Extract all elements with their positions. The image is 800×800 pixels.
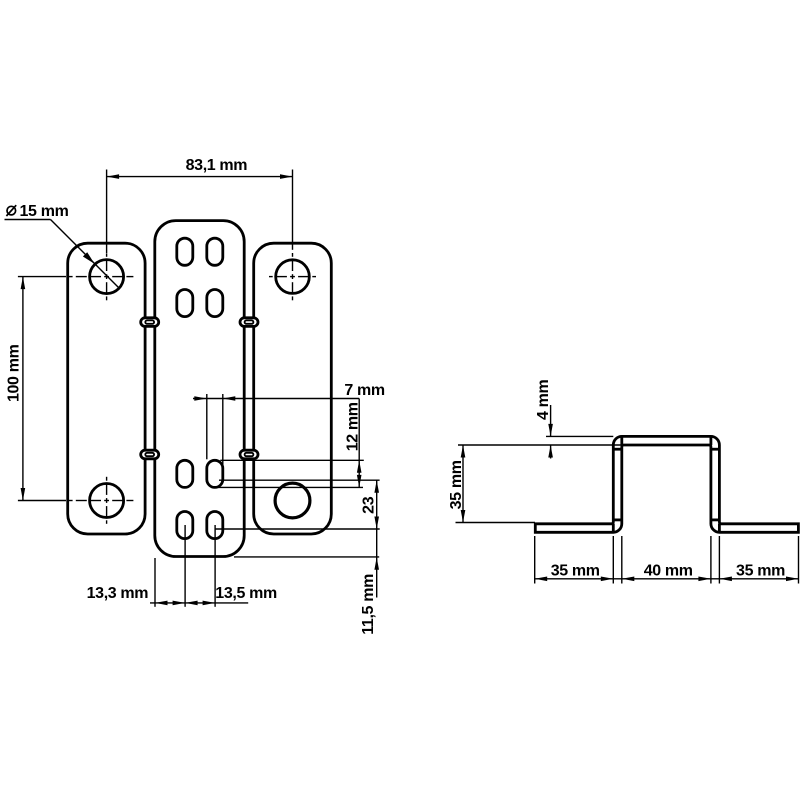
ext line 7 right (222, 394, 224, 479)
bend mark bottom-left tick (613, 519, 622, 522)
tab bridge outer (141, 318, 159, 327)
hat channel profile outline (535, 436, 798, 532)
centerline hole TR horizontal (290, 276, 295, 278)
arrow 23 bottom (374, 517, 379, 530)
ext line roof top (546, 435, 613, 437)
left plate outline (68, 243, 145, 534)
slot r1c2 (207, 238, 223, 265)
dim line 35 height (462, 445, 464, 523)
ext line wall left inner (621, 536, 623, 584)
slot r2c1 (177, 290, 193, 317)
dim line 100 (22, 277, 24, 501)
arrow 100 top (21, 277, 26, 290)
dim line 4 lower (550, 445, 552, 459)
svg-text:35 mm: 35 mm (736, 562, 785, 579)
ext line 13,3/13,5 middle (184, 525, 186, 607)
ext line flange top (456, 522, 536, 524)
leader arrow (83, 252, 95, 264)
arrow 23 top (374, 480, 379, 493)
dim line bottom widths (535, 578, 799, 580)
svg-text:4 mm: 4 mm (535, 379, 552, 420)
svg-text:11,5 mm: 11,5 mm (360, 574, 377, 635)
ext line slot bottom (215, 486, 363, 488)
ext line wall right inner (710, 536, 712, 584)
arrow 13,3 right (173, 601, 186, 606)
tab bridge outer (141, 450, 159, 459)
arrow 13,3 left (155, 601, 168, 606)
arrow 35R right (786, 577, 799, 582)
tab bridge inner (245, 320, 254, 323)
svg-text:23: 23 (361, 496, 378, 514)
bend mark bottom-left vertical (612, 524, 615, 533)
ext line wall right outer (718, 536, 720, 584)
centerline hole BL vertical (106, 498, 108, 503)
arrow 100 bottom (21, 488, 26, 501)
slot r1c1 (177, 238, 193, 265)
centerline hole TL vertical (106, 274, 108, 279)
arrow 4 up (548, 445, 553, 458)
arrow 4 down (548, 424, 553, 437)
svg-text:35 mm: 35 mm (551, 562, 600, 579)
tab bridge outer (240, 450, 258, 459)
bend mark top-right vertical (710, 436, 713, 445)
dim line 13,3/13,5 (150, 602, 248, 604)
centerline hole BL horizontal (104, 500, 109, 502)
ext line wall left outer (612, 536, 614, 584)
leader underline (5, 219, 51, 221)
ext line 13,5 right (214, 525, 216, 607)
tab bridge outer (240, 318, 258, 327)
ext line slot top (220, 459, 363, 461)
slot r3c2 (207, 460, 223, 487)
arrow 83,1 left (107, 174, 120, 179)
arrow 35h top (461, 445, 466, 458)
svg-text:100 mm: 100 mm (5, 344, 22, 402)
hole bottom-left (90, 484, 124, 518)
arrow 7 left (194, 396, 207, 401)
bend mark top-left tick (613, 448, 622, 451)
dim line 23 (376, 480, 378, 529)
ext line 23 top (219, 479, 380, 481)
hole top-left Ø15 (90, 260, 124, 294)
dim line 7 (193, 398, 359, 400)
dim line 11,5 (376, 529, 378, 598)
svg-text:7 mm: 7 mm (344, 382, 385, 399)
bend mark bottom-right tick (711, 519, 720, 522)
ext line 7 left (206, 394, 208, 459)
svg-text:40 mm: 40 mm (644, 562, 693, 579)
slot r4c2 (207, 512, 223, 539)
dim line 4 upper (550, 405, 552, 436)
svg-text:83,1 mm: 83,1 mm (186, 157, 248, 174)
right plate outline (254, 243, 332, 534)
arrow 35h bottom (461, 510, 466, 523)
arrow 13,5 right (203, 601, 216, 606)
slot r4c1 (177, 512, 193, 539)
ext line flange left end (534, 536, 536, 584)
hole bottom-right (275, 483, 310, 518)
ext line flange right end (798, 536, 800, 584)
ext line roof bottom (458, 444, 622, 446)
arrow 35L right (601, 577, 614, 582)
ext line plate bottom (234, 556, 379, 558)
arrow 40 right (698, 577, 711, 582)
arrow 35L left (535, 577, 548, 582)
bend mark bottom-right vertical (718, 524, 721, 533)
svg-text:15 mm: 15 mm (20, 203, 69, 220)
ext line 23 bottom (215, 528, 380, 530)
svg-text:12 mm: 12 mm (344, 402, 361, 451)
ext line 100 top (18, 276, 66, 278)
arrow 12 top (357, 460, 362, 473)
dim line 12 (358, 399, 360, 488)
ext line 83,1 right (292, 170, 294, 250)
tab bridge inner (145, 453, 154, 456)
arrow 40 left (622, 577, 635, 582)
arrow 12 bottom (357, 475, 362, 488)
arrow 13,5 left (185, 601, 198, 606)
arrow 7 right (223, 396, 236, 401)
hole top-right (276, 260, 310, 294)
slot r3c1 (177, 460, 193, 487)
bend mark top-left vertical (620, 436, 623, 445)
bend mark top-right tick (711, 448, 720, 451)
tab bridge inner (145, 320, 154, 323)
slot r2c2 (207, 290, 223, 317)
ext line 83,1 left (106, 170, 108, 254)
ext line 100 bottom (18, 500, 66, 502)
center plate outline (155, 221, 244, 557)
tab bridge inner (245, 453, 254, 456)
arrow 11,5 up (374, 557, 379, 570)
dim line 83,1 (107, 176, 293, 178)
svg-text:35 mm: 35 mm (448, 460, 465, 509)
arrow 83,1 right (280, 174, 293, 179)
arrow 35R left (719, 577, 732, 582)
centerline hole TL horizontal (104, 276, 109, 278)
svg-text:13,5 mm: 13,5 mm (215, 585, 277, 602)
ext line 13,3 left (154, 558, 156, 607)
diameter symbol (7, 206, 16, 215)
leader line to hole (51, 220, 120, 289)
svg-text:13,3 mm: 13,3 mm (87, 585, 149, 602)
centerline hole TR vertical (292, 274, 294, 279)
